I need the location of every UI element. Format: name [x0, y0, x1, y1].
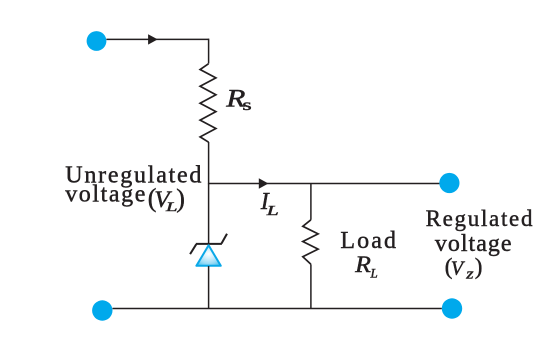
terminal top-left [87, 31, 107, 51]
svg-text:R: R [354, 252, 371, 277]
svg-text:): ) [176, 184, 185, 213]
wire load branch vertical top [310, 184, 312, 220]
wire vertical lead to Rs [208, 39, 210, 64]
svg-text:Regulated: Regulated [426, 206, 535, 231]
wire top horizontal [106, 38, 208, 40]
terminal top-right (regulated output) [439, 173, 459, 193]
resistor Rs [200, 64, 216, 143]
arrow IL on middle wire [259, 178, 269, 188]
terminal bottom-right [442, 298, 462, 318]
zener right tick [222, 234, 228, 244]
label Rs value [225, 85, 252, 114]
svg-text:z: z [465, 266, 474, 282]
svg-text:voltage: voltage [65, 182, 147, 208]
arrow current-in on top wire [148, 34, 158, 44]
resistor RL [303, 220, 318, 264]
label Vz node [445, 254, 483, 282]
label RL value [354, 252, 378, 280]
svg-text:): ) [475, 254, 483, 279]
svg-text:Load: Load [340, 228, 398, 254]
wire bottom horizontal [113, 308, 442, 310]
wire middle horizontal to output [209, 183, 440, 185]
label IL [260, 189, 279, 218]
svg-text:L: L [265, 203, 279, 218]
svg-text:L: L [370, 265, 378, 280]
zener diode D1 triangle [196, 245, 220, 265]
terminal bottom-left [92, 300, 112, 320]
wire Rs to node A [208, 142, 210, 184]
svg-text:V: V [451, 257, 466, 279]
wire zener to bottom [208, 266, 210, 309]
svg-text:s: s [242, 97, 251, 114]
zener left tick [190, 244, 196, 254]
zener diode D1 cathode bar [196, 243, 222, 245]
svg-text:voltage: voltage [435, 231, 513, 257]
label VI node [148, 184, 185, 215]
wire load branch vertical bottom [310, 264, 312, 308]
wire node A down to zener [208, 184, 210, 244]
